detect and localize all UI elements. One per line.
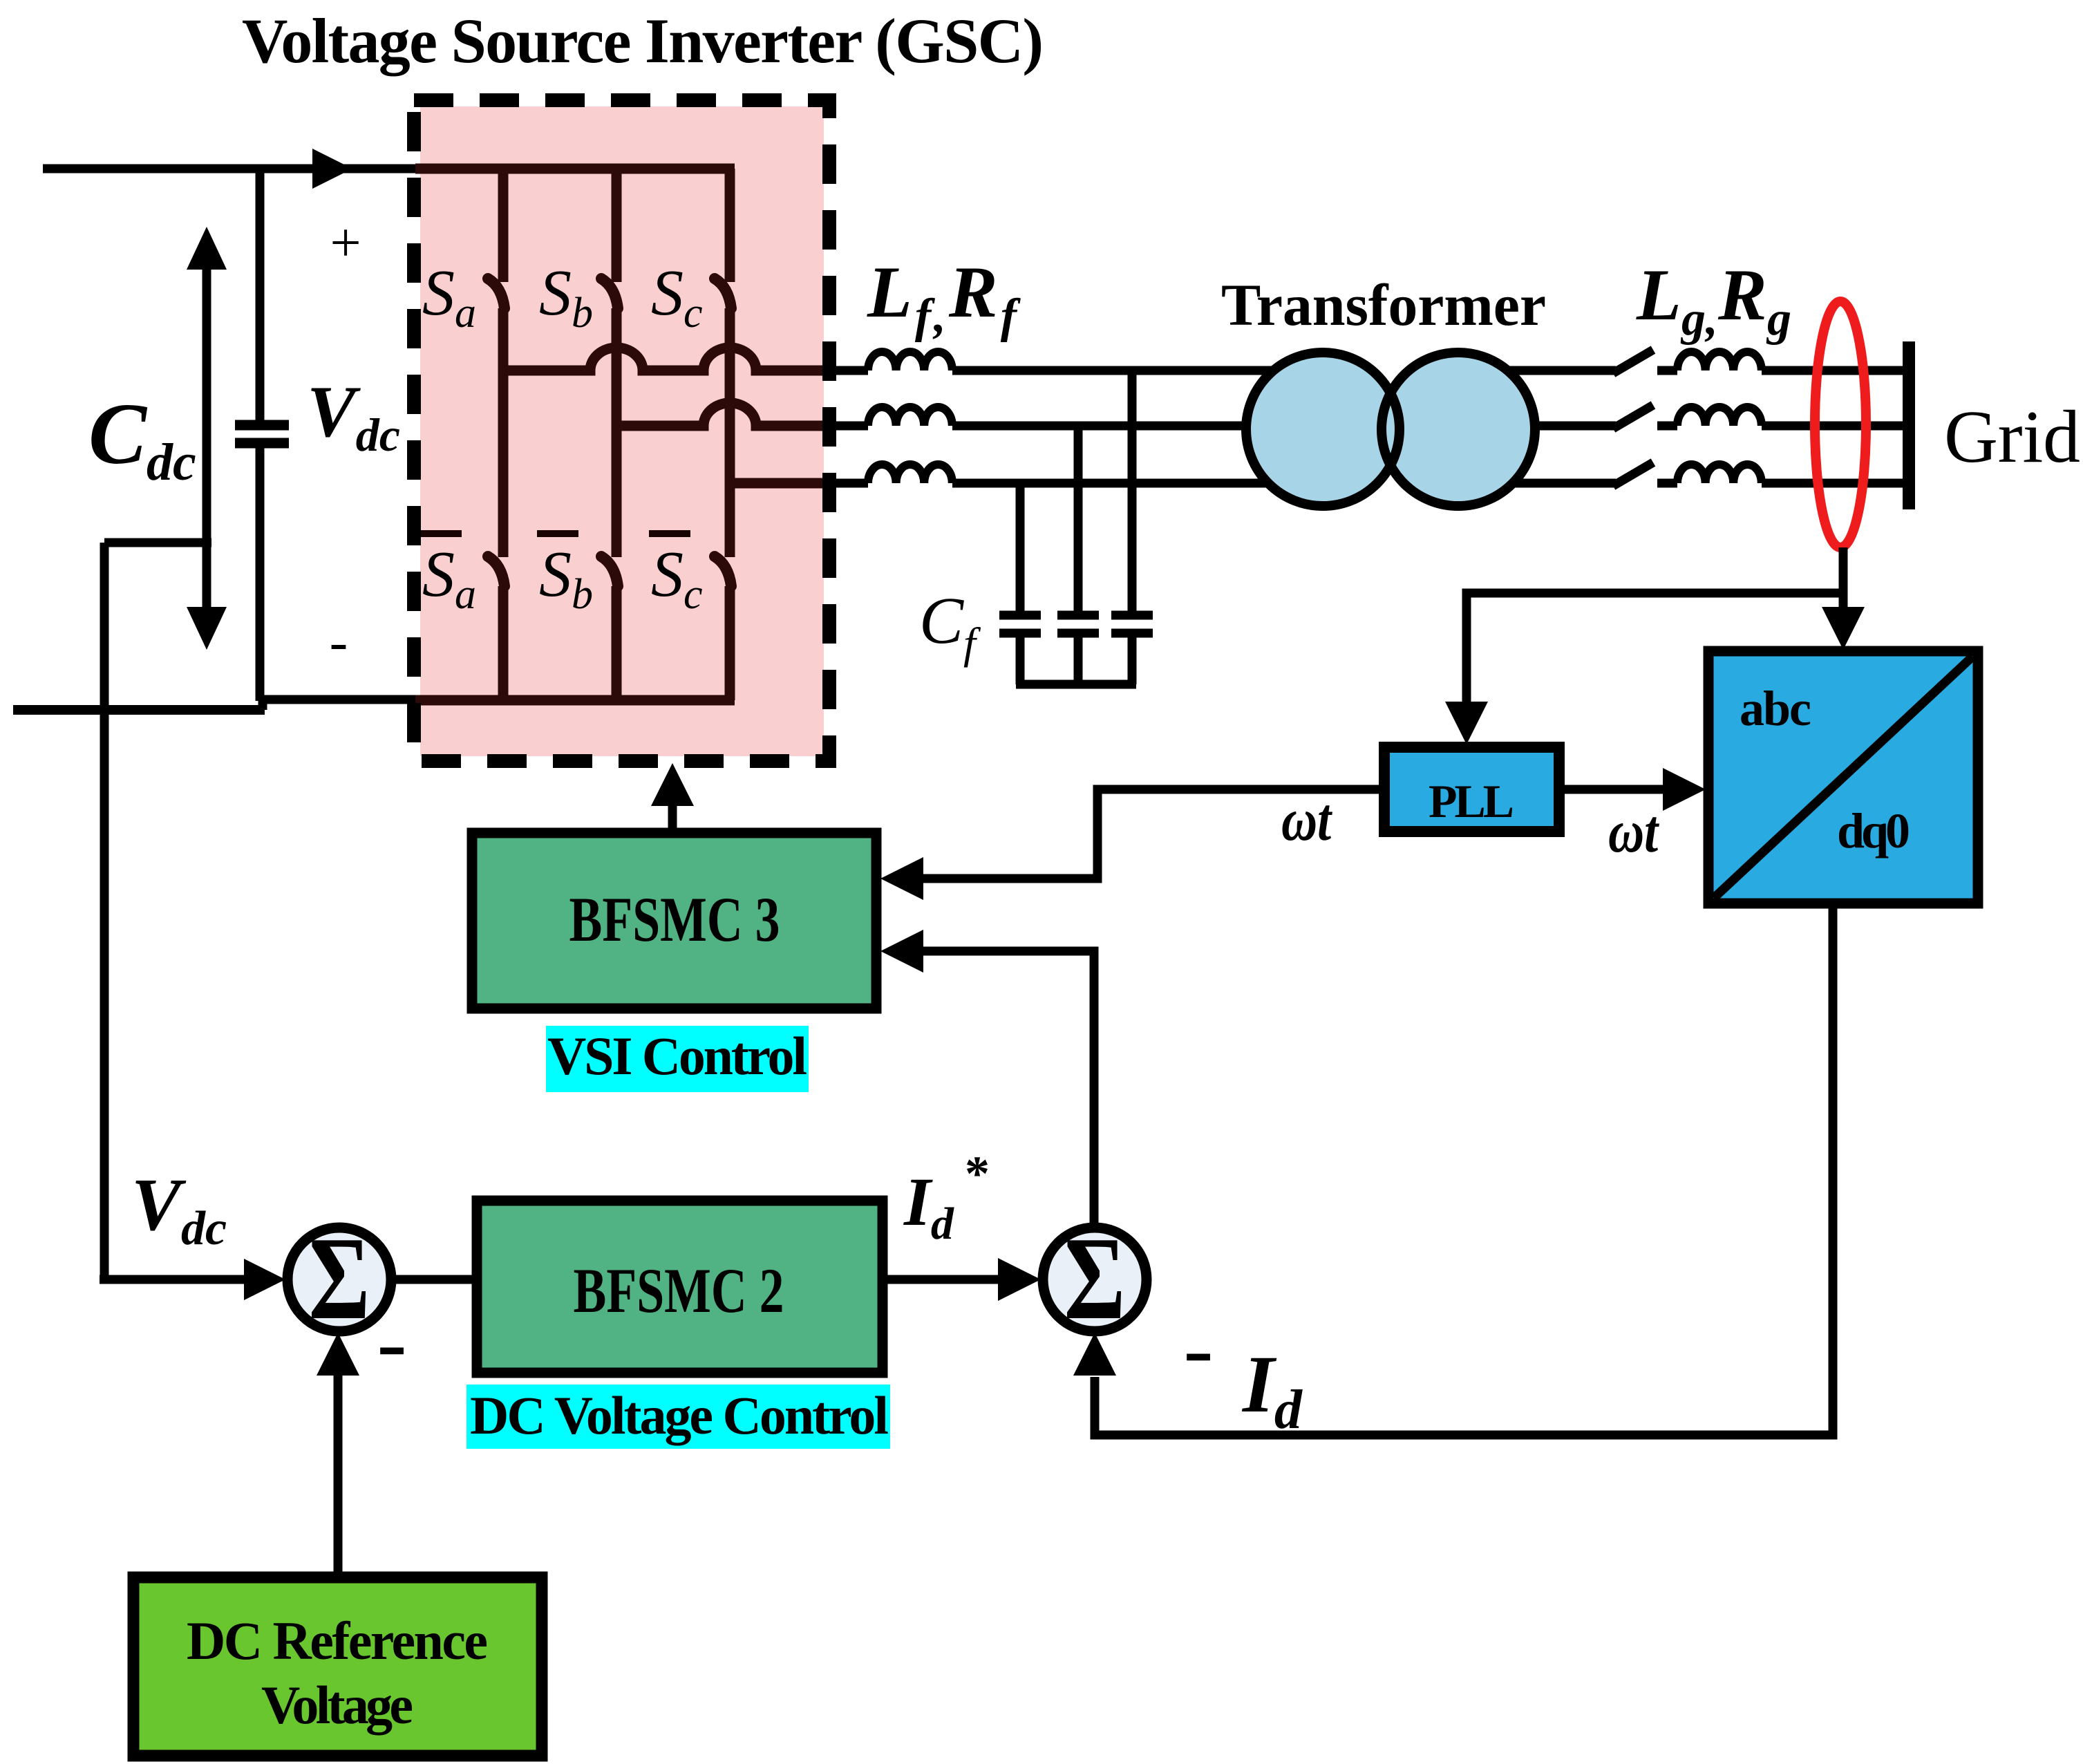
phase C line to transformer [952,479,1330,488]
svg-text:-: - [377,1293,406,1392]
switch blade phase A [1613,350,1653,373]
switch Sb-bar blade [601,556,618,586]
capacitor Cdc plates [235,420,289,431]
capacitor Cdc lead bottom [256,448,265,701]
svg-text:*: * [965,1146,990,1201]
switch Sa-bar blade [488,556,505,586]
switch leg A [498,169,509,700]
inductor Lg phase C [1677,465,1762,483]
wire BFSMC3 to VSI [668,802,677,833]
Vdc measurement double arrow [202,263,211,614]
node DC+ top bus [43,165,417,173]
svg-text:BFSMC 2: BFSMC 2 [574,1255,784,1326]
wire arrow into PLL [1445,702,1488,744]
label DC Voltage Control [466,1385,890,1449]
switch Sb blade [601,279,618,308]
svg-text:-: - [330,612,348,673]
measurement point red ellipse [1815,301,1866,547]
label VSI Control [546,1026,809,1092]
phase A grid side [1451,366,1616,375]
node DC- bottom bus left [13,705,265,715]
block BFSMC2 [477,1201,883,1373]
svg-text:PLL: PLL [1429,775,1514,827]
wire Id feedback [1095,903,1833,1435]
phase C inner line [730,478,829,489]
wire PLL to abc/dq0 [1559,785,1672,794]
svg-text:ωt: ωt [1281,786,1333,853]
svg-text:Vdc: Vdc [131,1164,227,1255]
wire error to BFSMC3 [912,951,1094,1226]
svg-text:Id: Id [1241,1339,1303,1441]
svg-text:Lf,Rf: Lf,Rf [867,252,1021,343]
block DC Reference Voltage [133,1577,542,1756]
svg-text:BFSMC 3: BFSMC 3 [569,883,780,955]
capacitor Cf tap C [1016,483,1025,611]
phase B inner line with hump [616,403,829,426]
inductor Lg phase B [1677,407,1762,426]
node DC- bottom bus right [258,695,417,704]
phase B line to filter [827,422,868,431]
capacitor Cf tap B [1074,426,1083,611]
switch Sc blade [715,279,731,308]
switch Sc-bar blade [715,556,731,586]
svg-text:Voltage Source Inverter (GSC): Voltage Source Inverter (GSC) [242,6,1044,76]
abc/dq0 diagonal [1714,657,1972,898]
wire jog on DC- bus [258,700,267,710]
wire Vdc feedback step [104,538,211,547]
svg-text:Σ: Σ [309,1212,370,1344]
capacitor Cf tap A [1128,370,1137,611]
svg-text:Grid: Grid [1944,396,2080,478]
svg-text:DC Voltage Control: DC Voltage Control [470,1385,889,1445]
svg-text:abc: abc [1740,681,1811,736]
switch Sa blade [488,279,505,308]
wire arrow into summer S1 [244,1259,285,1300]
transformer T1 [1246,353,1399,506]
wire arrow on DC+ bus [312,149,352,189]
svg-text:-: - [1183,1299,1213,1398]
switch leg B [612,169,622,700]
phase A line to filter [827,366,868,375]
wire BFSMC2 to S2 [883,1275,1002,1284]
svg-text:dq0: dq0 [1837,803,1910,858]
wire branch to PLL [1467,593,1843,704]
phase A line to transformer [952,366,1330,375]
capacitor Cf plates A [1111,615,1153,633]
summer S2 [1043,1228,1147,1331]
phase C grid side [1451,479,1616,488]
block abc/dq0 [1708,651,1978,903]
wire Vdc feedback vertical [100,543,109,1279]
svg-text:Id: Id [903,1163,954,1249]
wire PLL to BFSMC3 [912,789,1384,879]
inductor Lf phase A [868,352,952,370]
VSI inner top bus [415,164,735,174]
phase A inner line with humps [503,348,829,370]
phase B line to transformer [952,422,1330,431]
VSI dashed border [414,100,829,761]
inductor Lf phase C [868,465,952,483]
switch leg C [725,169,735,700]
VSI converter pink region fill [420,106,824,756]
svg-text:Cdc: Cdc [88,386,196,491]
wire Vdc feedback to sum [100,1275,249,1284]
phase C line to filter [827,479,868,488]
summer S1 [288,1228,391,1331]
svg-text:Voltage: Voltage [261,1675,413,1735]
wire arrow into abc/dq0 [1822,607,1865,650]
svg-text:+: + [330,213,361,274]
svg-text:Σ: Σ [1064,1212,1126,1344]
node Cf common bus [1016,680,1136,689]
svg-text:Cf: Cf [919,583,981,668]
svg-text:Transformer: Transformer [1221,272,1546,338]
svg-text:Lg,Rg: Lg,Rg [1636,254,1791,346]
switch blade phase C [1613,462,1653,486]
capacitor Cf bottom leads [1020,637,1132,684]
switch blade phase B [1613,405,1653,429]
wire from measurement point down [1839,547,1848,610]
wire DC reference to S1 [334,1376,343,1577]
capacitor Cf plates B [1057,615,1099,633]
svg-text:DC Reference: DC Reference [187,1611,488,1671]
svg-text:VSI Control: VSI Control [547,1026,807,1086]
grid bus bar [1903,341,1915,509]
block PLL [1384,747,1559,832]
svg-text:Vdc: Vdc [307,371,400,461]
inductor Lf phase B [868,407,952,426]
svg-text:ωt: ωt [1608,798,1660,865]
wire S1 to BFSMC2 [391,1275,477,1284]
inductor Lg phase A [1677,352,1762,370]
capacitor Cdc lead top [256,169,265,422]
capacitor Cf plates C [999,615,1041,633]
phase B grid side [1451,422,1616,431]
VSI inner bottom bus [415,695,735,706]
block BFSMC3 [472,833,876,1008]
